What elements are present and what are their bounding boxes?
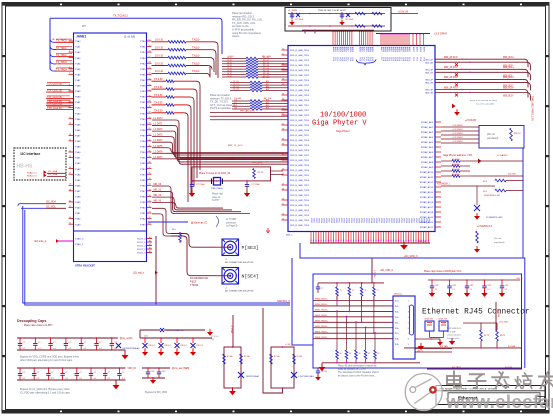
- svg-text:VSS4: VSS4: [420, 218, 422, 223]
- svg-text:C?: C?: [79, 372, 81, 374]
- svg-text:36: 36: [282, 128, 284, 130]
- svg-text:49: 49: [149, 100, 151, 102]
- svg-text:STRAP_AD14: STRAP_AD14: [420, 191, 434, 194]
- svg-text:+2.5 RJ45: +2.5 RJ45: [465, 119, 477, 122]
- capacitor C70: [315, 368, 327, 380]
- svg-text:GND_B: GND_B: [418, 241, 426, 243]
- svg-text:Decoupling Caps: Decoupling Caps: [17, 319, 46, 323]
- capacitor bank analog row 3: [140, 328, 213, 356]
- svg-text:VSS5: VSS5: [323, 218, 325, 223]
- svg-text:P1A8: P1A8: [75, 85, 81, 88]
- svg-text:PTB5: PTB5: [140, 69, 146, 71]
- svg-text:C?: C?: [99, 342, 101, 344]
- svg-text:C?: C?: [38, 342, 40, 344]
- svg-text:54: 54: [149, 73, 151, 75]
- svg-text:33: 33: [282, 113, 284, 115]
- svg-text:U?: U?: [82, 24, 86, 28]
- wire maroon vertical feed 3: [496, 302, 499, 330]
- note 49ohm termination: [338, 365, 379, 378]
- svg-text:STRAP_AD16: STRAP_AD16: [420, 201, 434, 204]
- svg-text:36: 36: [149, 173, 151, 175]
- svg-text:32: 32: [149, 195, 151, 197]
- svg-text:MDI3_RJ45-: MDI3_RJ45-: [315, 337, 328, 339]
- svg-text:44: 44: [282, 168, 284, 170]
- svg-text:49: 49: [368, 353, 370, 355]
- svg-text:RXD_B_GMII_TXD6: RXD_B_GMII_TXD6: [290, 180, 310, 182]
- svg-text:C2? 10uF: C2? 10uF: [295, 19, 304, 21]
- svg-text:RXD_B_GMII_TXD3: RXD_B_GMII_TXD3: [290, 115, 310, 117]
- svg-text:VSS8: VSS8: [405, 218, 407, 223]
- IC U2 left pin rows: [282, 48, 310, 227]
- svg-text:AT1: AT1: [266, 101, 269, 104]
- note jack mounting: [447, 328, 462, 340]
- svg-text:B3: B3: [149, 248, 151, 250]
- svg-text:AVD4: AVD4: [419, 47, 422, 52]
- svg-text:VSS6: VSS6: [325, 218, 327, 223]
- svg-text:PHYS as possible: PHYS as possible: [210, 106, 231, 110]
- svg-text:P1A2: P1A2: [75, 51, 81, 54]
- svg-text:5: 5: [71, 62, 72, 64]
- svg-text:MDI1_RJ45-: MDI1_RJ45-: [315, 315, 328, 317]
- svg-text:10 0 10: 10 0 10: [155, 62, 164, 65]
- svg-text:PTB4: PTB4: [140, 119, 146, 121]
- svg-text:L1 DAT7: L1 DAT7: [154, 156, 164, 159]
- svg-text:Ethernet RJ45 Connector: Ethernet RJ45 Connector: [422, 309, 530, 317]
- note caps close to RJ45: [424, 270, 462, 273]
- svg-text:RXD_B_GMII_TXD9: RXD_B_GMII_TXD9: [290, 195, 310, 197]
- svg-text:P1A0: P1A0: [75, 40, 81, 43]
- svg-text:P1A7: P1A7: [75, 134, 81, 137]
- left net labels into U1 (group 3): [46, 100, 74, 110]
- svg-text:RXD_B_GMII_TXD7: RXD_B_GMII_TXD7: [290, 185, 310, 187]
- svg-text:TX 0.50: TX 0.50: [154, 102, 163, 105]
- bus labels mid bundle: [228, 145, 262, 164]
- svg-text:The associated 0.01uF capacito: The associated 0.01uF capacitor shou'd: [338, 371, 379, 374]
- svg-text:VSS2: VSS2: [390, 218, 392, 223]
- svg-text:STRAP_AD9: STRAP_AD9: [421, 166, 434, 169]
- svg-text:38: 38: [282, 138, 284, 140]
- svg-text:75: 75: [340, 290, 342, 292]
- svg-text:PTB2: PTB2: [140, 219, 146, 221]
- svg-text:P1A5: P1A5: [75, 68, 81, 71]
- svg-text:+2.5 AVDD: +2.5 AVDD: [497, 154, 508, 157]
- svg-text:PTB7: PTB7: [140, 135, 146, 137]
- svg-text:P1A1: P1A1: [75, 101, 81, 104]
- svg-text:10 0 10: 10 0 10: [155, 39, 164, 42]
- svg-text:VSS9: VSS9: [358, 218, 360, 223]
- svg-text:47: 47: [149, 112, 151, 114]
- svg-text:TX_TRC0: TX_TRC0: [56, 40, 67, 43]
- svg-text:49: 49: [339, 353, 341, 355]
- svg-text:+2.5 MDIX 1: +2.5 MDIX 1: [437, 184, 451, 186]
- svg-text:PTB1: PTB1: [140, 47, 146, 49]
- svg-text:38: 38: [149, 162, 151, 164]
- svg-text:(Do not: (Do not: [487, 133, 495, 136]
- svg-text:RXD_B_GMII_TXD3: RXD_B_GMII_TXD3: [290, 65, 310, 67]
- svg-text:RXD_B_GMII_TXD8: RXD_B_GMII_TXD8: [290, 190, 310, 192]
- svg-text:40: 40: [149, 150, 151, 152]
- svg-text:PL9: PL9: [351, 58, 353, 61]
- svg-text:2: 2: [408, 306, 409, 308]
- svg-text:PTB1: PTB1: [140, 102, 146, 104]
- svg-text:I2C_SDA: I2C_SDA: [48, 173, 58, 176]
- note bypass row1: [20, 356, 80, 362]
- svg-text:VSS7: VSS7: [428, 218, 430, 223]
- svg-text:VSS0: VSS0: [335, 218, 337, 223]
- RJ45 jack J1: [393, 294, 452, 360]
- wire MDC MDIO rows: [210, 110, 288, 120]
- svg-text:PTB4: PTB4: [140, 174, 146, 176]
- svg-text:26: 26: [282, 78, 284, 80]
- svg-text:PTB1: PTB1: [140, 158, 146, 160]
- svg-text:VSS9: VSS9: [408, 218, 410, 223]
- svg-text:STRAP_AD17: STRAP_AD17: [420, 206, 434, 209]
- svg-text:MDI_0P 49.9: MDI_0P 49.9: [444, 57, 458, 59]
- svg-text:PL6: PL6: [345, 58, 347, 61]
- svg-text:PTB3: PTB3: [140, 113, 146, 115]
- svg-text:VSS0: VSS0: [410, 218, 412, 223]
- svg-text:RXD_B_GMII_TXD1: RXD_B_GMII_TXD1: [290, 55, 310, 57]
- decoupling caps title: [17, 319, 53, 327]
- svg-text:AT3: AT3: [266, 107, 269, 110]
- svg-text:I2C_SCL: I2C_SCL: [46, 205, 56, 208]
- svg-text:10: 10: [69, 89, 71, 91]
- svg-text:49.9: 49.9: [172, 229, 176, 231]
- svg-text:TX 0.50: TX 0.50: [154, 110, 163, 113]
- svg-text:5: 5: [408, 322, 409, 324]
- svg-text:NO CONNECTOR SOLUTION: NO CONNECTOR SOLUTION: [225, 262, 254, 264]
- svg-text:PTB0: PTB0: [140, 208, 146, 210]
- svg-text:PTB9: PTB9: [140, 91, 146, 93]
- svg-text:R52 4K9: R52 4K9: [508, 174, 517, 176]
- svg-text:60: 60: [149, 39, 151, 41]
- svg-text:4: 4: [71, 55, 72, 57]
- svg-text:TXD_GG0 [5]: TXD_GG0 [5]: [47, 100, 62, 103]
- svg-text:C?: C?: [51, 372, 53, 374]
- svg-text:24: 24: [282, 68, 284, 70]
- svg-text:MDI2_RJ45-: MDI2_RJ45-: [315, 326, 328, 328]
- svg-text:to x-ref as possible: to x-ref as possible: [476, 103, 495, 106]
- capacitor C30: [189, 181, 206, 197]
- svg-text:AVD1: AVD1: [408, 47, 411, 52]
- svg-text:7: 7: [69, 73, 70, 75]
- svg-text:VSS3: VSS3: [368, 218, 370, 223]
- svg-text:TX_C3: TX_C3: [233, 89, 239, 91]
- svg-text:VSS5: VSS5: [373, 218, 375, 223]
- svg-text:PTB4: PTB4: [140, 63, 146, 65]
- svg-text:PTB7: PTB7: [140, 191, 146, 193]
- svg-text:MX1149/FXO5: MX1149/FXO5: [447, 328, 462, 330]
- svg-text:PL3: PL3: [365, 58, 367, 61]
- svg-text:PL3: PL3: [338, 58, 340, 61]
- svg-text:R50 1K: R50 1K: [514, 133, 521, 135]
- svg-text:LED0_RX: LED0_RX: [425, 319, 434, 321]
- svg-text:8: 8: [408, 339, 409, 341]
- svg-text:+RJ_V: +RJ_V: [516, 278, 523, 280]
- svg-text:P1A9: P1A9: [75, 201, 81, 204]
- svg-text:be placed close to the 49 ohm: be placed close to the 49 ohm resis....: [338, 374, 377, 377]
- svg-text:P[SE3]: P[SE3]: [242, 245, 259, 251]
- svg-text:PL8: PL8: [349, 58, 351, 61]
- svg-text:MDI_RJ1+: MDI_RJ1+: [503, 67, 515, 69]
- svg-text:RXD_B_GMII_TXD5: RXD_B_GMII_TXD5: [290, 125, 310, 127]
- svg-text:42: 42: [149, 139, 151, 141]
- svg-text:MDI_RJ0+: MDI_RJ0+: [503, 57, 515, 59]
- svg-text:VSS4: VSS4: [345, 218, 347, 223]
- svg-text:49: 49: [349, 353, 351, 355]
- svg-text:VSS2: VSS2: [340, 218, 342, 223]
- note xtal placement: [212, 193, 223, 203]
- svg-text:PL0: PL0: [359, 58, 361, 61]
- svg-text:populated): populated): [487, 137, 499, 140]
- svg-text:VSS6: VSS6: [375, 218, 377, 223]
- termination resistors bottom: [319, 310, 420, 371]
- svg-text:L1 DAT5: L1 DAT5: [154, 145, 164, 148]
- svg-text:TX_TRC1: TX_TRC1: [56, 47, 67, 50]
- svg-text:STRAP_AD12: STRAP_AD12: [420, 181, 434, 184]
- svg-text:STRAP_AD7: STRAP_AD7: [421, 156, 434, 159]
- svg-text:2K4 4K0: 2K4 4K0: [452, 169, 461, 171]
- svg-text:PTB0: PTB0: [140, 41, 146, 43]
- svg-text:3: 3: [408, 311, 409, 313]
- svg-text:MDI_2P 49.9: MDI_2P 49.9: [444, 77, 458, 79]
- svg-text:TT3020: TT3020: [190, 284, 199, 287]
- svg-text:VSS0: VSS0: [310, 218, 312, 223]
- svg-text:+RJ_VDD: +RJ_VDD: [499, 322, 509, 324]
- svg-text:P1A8: P1A8: [75, 196, 81, 199]
- watermark logo circle: [405, 374, 442, 411]
- svg-text:STRAP_AD13: STRAP_AD13: [420, 186, 434, 189]
- svg-text:L1 DAT2: L1 DAT2: [154, 128, 164, 131]
- svg-text:MDI_3P 49.9: MDI_3P 49.9: [444, 87, 458, 89]
- svg-text:RXD_B_GMII_TXD9: RXD_B_GMII_TXD9: [290, 145, 310, 147]
- svg-text:46: 46: [149, 117, 151, 119]
- svg-text:PL9: PL9: [384, 58, 386, 61]
- svg-text:C?: C?: [23, 342, 25, 344]
- RJ45 section outer box: [313, 274, 522, 368]
- svg-text:FERRITEBEAD 600: FERRITEBEAD 600: [166, 329, 185, 332]
- svg-text:VSS1: VSS1: [313, 218, 315, 223]
- svg-text:MDI3_RJ45+: MDI3_RJ45+: [315, 331, 329, 333]
- svg-text:C7 0.01: C7 0.01: [321, 371, 327, 373]
- svg-text:C?: C?: [37, 372, 39, 374]
- svg-text:(11) xtal_x: (11) xtal_x: [133, 272, 145, 275]
- svg-text:@x/ave-ax (7): @x/ave-ax (7): [191, 221, 207, 225]
- svg-text:TX(1)0: TX(1)0: [192, 70, 200, 73]
- svg-text:10 0 10: 10 0 10: [155, 47, 164, 50]
- svg-text:MDI_x: MDI_x: [286, 235, 293, 237]
- svg-text:P1A3: P1A3: [75, 168, 81, 171]
- svg-text:shorter plated: shorter plated: [447, 334, 461, 337]
- svg-text:50: 50: [149, 95, 151, 97]
- svg-text:6: 6: [71, 69, 72, 71]
- svg-text:PL3: PL3: [416, 58, 418, 61]
- svg-text:33: 33: [149, 189, 151, 191]
- MDI vertical links: [336, 296, 375, 334]
- svg-text:AT3: AT3: [266, 88, 269, 91]
- svg-text:LED1_RX: LED1_RX: [439, 319, 448, 321]
- svg-text:PTB6: PTB6: [140, 130, 146, 132]
- svg-text:P1A8: P1A8: [75, 140, 81, 143]
- svg-text:XOUT_2: XOUT_2: [137, 246, 146, 248]
- svg-text:STRAP_AD0: STRAP_AD0: [421, 121, 434, 124]
- svg-text:RD 10K: RD 10K: [262, 77, 270, 79]
- svg-text:C4X 0.1: C4X 0.1: [196, 345, 203, 347]
- svg-text:P1A4: P1A4: [75, 173, 81, 176]
- svg-text:MDI_2P: MDI_2P: [425, 80, 433, 82]
- svg-text:R7 75: R7 75: [484, 335, 489, 337]
- crystal X1: [211, 178, 223, 191]
- svg-text:MD_X2: MD_X2: [154, 195, 162, 197]
- svg-text:P1A7: P1A7: [75, 79, 81, 82]
- IC U2 10/100/1000 Giga PHYter V: [288, 46, 435, 232]
- svg-text:P1A7: P1A7: [75, 190, 81, 193]
- svg-text:VSS4: VSS4: [395, 218, 397, 223]
- svg-text:PTB6: PTB6: [140, 185, 146, 187]
- svg-text:T2T_CLK1 [5]: T2T_CLK1 [5]: [47, 89, 62, 92]
- note TX termination placement: [210, 93, 235, 110]
- wire TX_TCLK net (blue): [50, 14, 222, 55]
- svg-text:C?? 22pF: C?? 22pF: [196, 184, 206, 186]
- svg-text:31: 31: [149, 200, 151, 202]
- supply branch L3 network: [263, 308, 314, 393]
- svg-text:R? 330: R? 330: [227, 356, 233, 358]
- svg-text:XOUT_0: XOUT_0: [137, 239, 146, 241]
- svg-text:P1A6: P1A6: [75, 129, 81, 132]
- svg-text:VSS9: VSS9: [383, 218, 385, 223]
- svg-text:+T_PWR: +T_PWR: [230, 325, 232, 334]
- svg-text:31: 31: [69, 206, 71, 208]
- svg-text:AT2: AT2: [266, 104, 269, 107]
- svg-text:75: 75: [377, 290, 379, 292]
- svg-text:MDI1_RJ45+: MDI1_RJ45+: [315, 310, 329, 312]
- svg-text:VSS8: VSS8: [330, 218, 332, 223]
- svg-text:MDI_3N: MDI_3N: [425, 93, 433, 95]
- svg-text:LED_Y+: LED_Y+: [417, 350, 423, 352]
- svg-text:FERRITE BEAD: FERRITE BEAD: [246, 375, 260, 378]
- svg-text:TX(1)0: TX(1)0: [192, 47, 200, 50]
- IC U2 bottom pin names (vertical): [310, 218, 430, 223]
- svg-text:TXD_GG1 [5]: TXD_GG1 [5]: [47, 107, 62, 110]
- svg-text:+2.5AVDD-X.X: +2.5AVDD-X.X: [477, 225, 493, 228]
- svg-text:PTB3: PTB3: [140, 169, 146, 171]
- svg-text:2K4 4K0: 2K4 4K0: [452, 174, 461, 176]
- svg-text:to TI GBIT: to TI GBIT: [226, 218, 237, 221]
- svg-text:34: 34: [149, 184, 151, 186]
- svg-text:STRAP_AD4: STRAP_AD4: [421, 141, 434, 144]
- series resistors on U1 TX lines: [152, 39, 219, 202]
- svg-text:PL6: PL6: [371, 58, 373, 61]
- svg-text:C?: C?: [94, 372, 96, 374]
- svg-text:PTB2: PTB2: [140, 163, 146, 165]
- svg-text:RXD_B_GMII_TXD5: RXD_B_GMII_TXD5: [290, 75, 310, 77]
- svg-text:VSS1: VSS1: [388, 218, 390, 223]
- svg-text:PWR FILTER 2.5V AT GPHY: PWR FILTER 2.5V AT GPHY: [318, 9, 347, 12]
- svg-text:MDI_RJ3+: MDI_RJ3+: [503, 87, 515, 89]
- svg-text:+2.5 GND0: +2.5 GND0: [452, 141, 463, 143]
- svg-text:MXJ1xxx: MXJ1xxx: [394, 294, 402, 296]
- svg-text:+2.5 GND0: +2.5 GND0: [452, 137, 463, 139]
- IC U2 right MDI pin labels: [425, 59, 433, 94]
- svg-text:T2T_CLK2 [5]: T2T_CLK2 [5]: [47, 96, 62, 99]
- svg-text:VSS0: VSS0: [360, 218, 362, 223]
- svg-text:RXD_B_GMII_TXD1: RXD_B_GMII_TXD1: [290, 205, 310, 207]
- svg-text:VSS8: VSS8: [380, 218, 382, 223]
- label MDI blue: [286, 235, 293, 237]
- svg-text:I2C Interface: I2C Interface: [21, 152, 41, 156]
- svg-text:Place 49 ohm termination resis: Place 49 ohm termination resistors as: [338, 365, 377, 368]
- bus rows U1 to PHY mid: [152, 184, 250, 214]
- wire maroon vertical feed 2: [372, 258, 375, 283]
- svg-text:VSS7: VSS7: [353, 218, 355, 223]
- svg-text:STRAP_AD3: STRAP_AD3: [421, 136, 434, 139]
- svg-text:37: 37: [149, 167, 151, 169]
- svg-text:TX(1)0: TX(1)0: [192, 39, 200, 42]
- svg-text:PL5: PL5: [343, 58, 345, 61]
- svg-text:33: 33: [69, 217, 71, 219]
- svg-text:N[SE4]: N[SE4]: [242, 274, 259, 280]
- svg-text:58: 58: [149, 51, 151, 53]
- svg-text:STRAP_AD11: STRAP_AD11: [420, 176, 434, 179]
- svg-text:RXD_B_GMII_TXD5: RXD_B_GMII_TXD5: [290, 175, 310, 177]
- svg-text:22: 22: [69, 156, 71, 158]
- svg-text:PL5: PL5: [396, 58, 398, 61]
- svg-text:PL4: PL4: [394, 58, 396, 61]
- svg-text:35: 35: [282, 123, 284, 125]
- svg-text:21: 21: [69, 150, 71, 152]
- svg-text:2: 2: [71, 41, 72, 43]
- svg-text:PL1: PL1: [334, 58, 336, 61]
- svg-text:STRAP_AD2: STRAP_AD2: [421, 131, 434, 134]
- svg-text:PL9: PL9: [404, 58, 406, 61]
- capacitor bank RJ45 VCC: [428, 278, 523, 297]
- svg-text:VSS4: VSS4: [320, 218, 322, 223]
- svg-text:23: 23: [282, 63, 284, 65]
- svg-text:3: 3: [71, 48, 72, 50]
- svg-text:RXD_B_GMII_TXD0: RXD_B_GMII_TXD0: [290, 100, 310, 102]
- svg-text:C?: C?: [23, 372, 25, 374]
- svg-text:53: 53: [282, 213, 284, 215]
- wire FG TAB 2: [427, 348, 522, 369]
- svg-text:L1 DAT4: L1 DAT4: [154, 139, 164, 142]
- svg-text:PTB5: PTB5: [140, 124, 146, 126]
- svg-text:Giga Phyter: Giga Phyter: [336, 129, 350, 133]
- IC U2 top pin names (vertical): [332, 47, 426, 65]
- svg-text:RXD_B_GMII_TXD6: RXD_B_GMII_TXD6: [290, 130, 310, 132]
- svg-text:MDI_0N: MDI_0N: [425, 62, 433, 64]
- svg-text:PHY_AD_(5:0): PHY_AD_(5:0): [240, 110, 255, 113]
- MDI differential pairs with terminations: [435, 57, 531, 101]
- svg-text:10 0 10: 10 0 10: [155, 70, 164, 73]
- svg-text:P1A6: P1A6: [75, 184, 81, 187]
- svg-text:STRAP_AD8: STRAP_AD8: [421, 161, 434, 164]
- svg-text:6: 6: [408, 328, 409, 330]
- svg-text:39: 39: [282, 143, 284, 145]
- svg-text:AT0: AT0: [266, 80, 269, 83]
- svg-text:TX 0.50: TX 0.50: [154, 78, 163, 81]
- svg-text:0.1: 0.1: [505, 289, 508, 291]
- svg-text:MDI_RJ2+: MDI_RJ2+: [503, 77, 515, 79]
- I2C interface connector: [14, 148, 66, 180]
- svg-text:MD_X0: MD_X0: [154, 184, 162, 186]
- svg-text:56: 56: [149, 62, 151, 64]
- alt ground symbol: [266, 228, 270, 232]
- svg-text:VSS5: VSS5: [348, 218, 350, 223]
- IC U1 (MAC interface, 1 of 16): [74, 24, 147, 262]
- svg-text:TX_TRC2: TX_TRC2: [56, 54, 67, 57]
- svg-text:C?: C?: [321, 288, 323, 290]
- svg-text:TX_TRC3: TX_TRC3: [56, 61, 67, 64]
